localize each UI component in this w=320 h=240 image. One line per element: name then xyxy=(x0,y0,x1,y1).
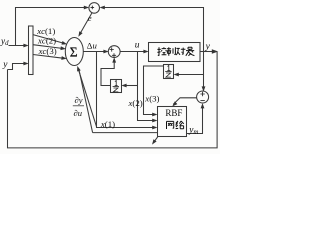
arrow y into model comparator xyxy=(202,86,206,91)
svg-text:∂u: ∂u xyxy=(74,108,82,118)
wire: y into delay2 xyxy=(176,74,203,76)
delay2 1/z box xyxy=(164,65,174,79)
wire: y_m from RBF to model comparator xyxy=(187,106,203,134)
arrow xc1 into sigma xyxy=(61,41,67,46)
plant box xyxy=(149,43,201,62)
arrow u into plant xyxy=(143,50,148,54)
plus/minus signs in summing junctions xyxy=(91,6,205,101)
svg-text:e: e xyxy=(88,13,92,23)
wire: delay1 out to accumulator xyxy=(101,59,114,85)
wire: u tap down to 1/z and x2 xyxy=(138,52,155,121)
wire: into delay1 right side xyxy=(124,85,137,87)
svg-text:RBF: RBF xyxy=(165,108,182,118)
label 1/z in delay1 xyxy=(113,81,119,92)
wire: model comparator out to RBF top xyxy=(173,98,196,105)
arrow xc3 into sigma xyxy=(61,56,67,60)
svg-text:xc(2): xc(2) xyxy=(37,36,56,46)
arrow du into accumulator xyxy=(103,50,108,54)
svg-text:Σ: Σ xyxy=(70,45,78,60)
wire: xc(2) to sigma xyxy=(33,45,63,49)
wire: u to plant xyxy=(120,51,146,53)
svg-text:y: y xyxy=(205,42,211,52)
wire: delta-u tap down (x1) xyxy=(97,52,155,128)
accumulator circle xyxy=(108,46,120,58)
label 1/z in delay2 xyxy=(165,65,171,77)
arrowheads xyxy=(23,6,218,146)
arrow x3 into RBF xyxy=(152,113,157,117)
delay1 1/z box xyxy=(111,80,122,93)
wire: delay2 out to x3 xyxy=(144,66,164,115)
svg-text:x(2): x(2) xyxy=(128,98,143,108)
arrow y into delay2 xyxy=(174,73,179,77)
wire: xc(1) to sigma xyxy=(33,35,64,44)
arrow y output xyxy=(212,49,219,54)
wire: y output xyxy=(200,51,213,53)
arrow e into sigma xyxy=(77,31,83,37)
arrow into comparator left xyxy=(84,6,89,10)
arrow ym into model comparator xyxy=(201,103,205,108)
wire: RBF jacobian dangling arrow xyxy=(154,137,158,143)
arrow into comparator right xyxy=(100,6,105,10)
label dy/du fraction xyxy=(74,95,83,118)
wire: dy/du slant from line B to sigma xyxy=(79,69,93,133)
wire: y tap down to model comparator xyxy=(203,52,205,89)
svg-text:y: y xyxy=(2,60,8,70)
comparator circle top xyxy=(89,3,100,14)
svg-text:x(3): x(3) xyxy=(144,94,159,104)
arrow error into RBF xyxy=(171,101,177,107)
wire: y_d input xyxy=(9,45,26,47)
wire: top feedback from y to comparator xyxy=(102,8,204,52)
arrow into delay1 xyxy=(121,84,126,88)
arrow dy/du into sigma xyxy=(75,65,80,71)
svg-text:ym: ym xyxy=(188,126,198,136)
arrow jacobian out xyxy=(150,139,156,146)
wire: xc(3) to sigma xyxy=(33,55,64,59)
arrow yd into TDL xyxy=(23,44,28,48)
RBF box xyxy=(158,107,187,137)
arrow delayed-u into accumulator xyxy=(112,57,116,62)
sigma ellipse xyxy=(65,38,83,66)
svg-text:u: u xyxy=(135,41,140,51)
TDL box xyxy=(29,26,34,75)
svg-text:xc(1): xc(1) xyxy=(36,26,55,36)
hanzi: wang luo (network) in RBF box xyxy=(167,121,184,129)
svg-text:∂y: ∂y xyxy=(75,95,83,105)
wire: slant x1-junction into sigma bottom xyxy=(78,68,97,127)
arrow y into TDL xyxy=(23,62,28,66)
svg-text:xc(3): xc(3) xyxy=(38,46,57,56)
wire: top y_d feed to comparator xyxy=(16,8,87,46)
arrow xc2 into sigma xyxy=(60,46,66,50)
wire: e diagonal from comparator to sigma xyxy=(80,12,93,34)
arrow x2 into RBF xyxy=(152,119,157,123)
svg-text:x(1): x(1) xyxy=(100,119,115,129)
hanzi: kong4 zhi4 dui4 xiang4 (plant) xyxy=(157,47,194,56)
model comparator circle xyxy=(197,91,209,103)
wire: delta-u from sigma to accumulator xyxy=(83,51,106,53)
wire: y input with jog xyxy=(8,64,26,70)
svg-text:Δu: Δu xyxy=(87,40,98,50)
wire: line B dy/du from RBF xyxy=(93,132,158,134)
wire: bottom-left feedback frame xyxy=(8,52,218,148)
arrow x1 into RBF xyxy=(152,126,157,130)
